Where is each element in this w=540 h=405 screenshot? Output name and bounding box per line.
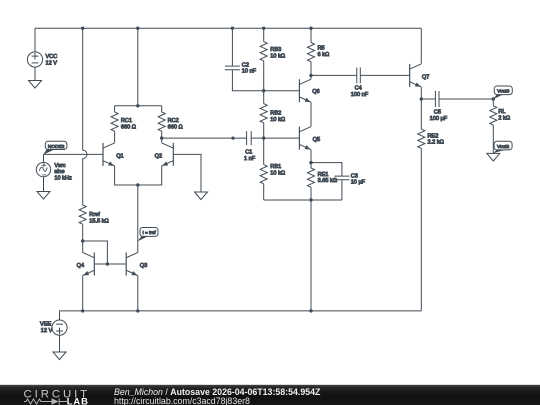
transistor Q7 [410,64,430,87]
capacitor C3 10uF [334,173,365,200]
svg-text:Rref: Rref [89,212,100,218]
wire node to Q6 base [264,90,300,92]
wire Q6 collector node to C4 [311,74,357,76]
resistor R5 6k [308,43,330,76]
resistor Rref [79,205,109,241]
wire Q4 collector to Rref node [82,241,84,253]
svg-text:Vout3: Vout3 [497,89,510,95]
transistor Q1 [103,143,124,166]
ground below Vsrc [37,192,50,200]
node flag Vout2 [493,141,512,153]
svg-text:10 µF: 10 µF [351,180,366,186]
svg-text:15.5 kΩ: 15.5 kΩ [89,219,108,225]
svg-text:RC2: RC2 [168,118,179,124]
wire RE1 node down to VEE rail [310,200,312,311]
wire Q6 collector up [310,75,312,79]
CircuitLab logo [0,385,95,405]
wire Q5 emitter down [310,150,312,163]
svg-text:10 kHz: 10 kHz [54,175,72,181]
wire C4 to Q7 base [398,74,410,76]
resistor RB1 10k [260,138,285,200]
transistor Q2 (mirrored) [155,143,174,166]
svg-text:C3: C3 [351,173,358,179]
svg-text:Q1: Q1 [116,153,123,159]
voltage source Vsrc sine [36,154,72,191]
svg-text:RE2: RE2 [428,133,439,139]
transistor Q6 [299,79,319,102]
junction rail @82.7 [81,27,84,30]
resistor RL 2k [490,99,510,153]
svg-text:sine: sine [54,169,64,175]
svg-text:RC1: RC1 [121,118,132,124]
svg-text:10 kΩ: 10 kΩ [270,53,285,59]
junction C5/RL node [492,97,495,100]
resistor RC2 660 [158,106,182,143]
resistor RB3 10k [260,42,285,91]
voltage source VEE [40,311,67,353]
svg-text:RB1: RB1 [270,164,281,170]
svg-text:C2: C2 [242,62,249,68]
svg-text:660 Ω: 660 Ω [121,124,136,130]
wire rail to RB3 [263,28,265,41]
junction wire node @233 [231,137,234,140]
svg-text:RL: RL [498,109,505,115]
wire Q2 base to ground [173,154,201,192]
ground below VCC [29,81,42,89]
svg-text:VCC: VCC [46,54,58,60]
svg-text:C4: C4 [355,86,362,92]
svg-text:100 nF: 100 nF [351,92,369,98]
svg-text:10 kΩ: 10 kΩ [270,171,285,177]
ground at Q2 base [195,192,208,200]
svg-text:10 kΩ: 10 kΩ [270,117,285,123]
svg-text:Q4: Q4 [77,263,84,269]
junction rail @137.8 [136,27,139,30]
resistor RE1 3.65k [308,163,338,200]
svg-text:RB3: RB3 [270,47,281,53]
svg-text:Q2: Q2 [155,153,162,159]
transistor Q5 [299,127,320,150]
junction tail [136,183,139,186]
svg-text:12 V: 12 V [46,61,58,67]
svg-text:RB2: RB2 [270,111,281,117]
junction Q5 emitter node [309,161,312,164]
wire node to Q5 base [264,137,300,139]
wire VEE bottom rail [60,310,422,312]
svg-text:Q7: Q7 [422,75,429,81]
svg-text:LAB: LAB [67,396,89,405]
svg-text:2.2 kΩ: 2.2 kΩ [428,140,444,146]
capacitor C1 1nF [244,131,264,162]
wire Q7 emitter down [420,87,422,99]
resistor RB2 10k [260,91,285,138]
junction Q7 emitter node [420,97,423,100]
wire rail to R5 [310,28,312,42]
wire node to C5 [421,98,435,100]
svg-text:1 nF: 1 nF [244,156,256,162]
svg-text:C1: C1 [245,150,252,156]
wire top VCC rail [35,27,421,29]
ground at RL bottom [487,153,500,161]
wire node to C3 top [311,163,342,177]
wire RB1 bottom to RE1 node [264,199,342,201]
transistor Q3 [126,253,147,276]
junction rail @232.4 [231,27,234,30]
svg-text:100 µF: 100 µF [430,116,448,122]
wire rail to RC bus [137,28,139,106]
svg-text:660 Ω: 660 Ω [168,124,183,130]
node NODE2 flag [43,141,67,154]
junction rail @263.7 [262,27,265,30]
svg-text:NODE2: NODE2 [48,144,65,150]
capacitor C4 100nF [351,68,398,99]
junction RC2 bottom node [160,136,163,139]
junction RC bus @137.8 [136,104,139,107]
svg-text:12 V: 12 V [41,328,53,334]
svg-text:C5: C5 [434,110,441,116]
junction R5/C4/Q6 collector [309,74,312,77]
svg-text:3.65 kΩ: 3.65 kΩ [318,178,337,184]
footer bar [0,384,540,405]
wire RC1/RC2 top bus [115,105,162,107]
svg-text:VEE: VEE [40,322,51,328]
capacitor C2 10nF [225,62,264,90]
wire mirror base bus [94,263,126,265]
junction VEE rail @137.8 [136,309,139,312]
svg-text:R5: R5 [318,46,325,52]
wire tail to Q3 collector [137,185,139,253]
svg-text:I = Iref: I = Iref [143,230,157,235]
node flag I = Iref [138,228,158,242]
ground below VEE [53,352,66,360]
svg-text:2 kΩ: 2 kΩ [498,116,510,122]
wire Vsrc to Q1 base (hop over ref column) [43,153,103,155]
voltage source VCC [27,28,57,80]
svg-text:RE1: RE1 [318,172,329,178]
wire rail to Rref column [83,28,87,205]
wire Q3 emitter to VEE rail [137,276,139,311]
wire Q4 emitter to VEE rail [82,276,84,311]
svg-text:Vout2: Vout2 [497,144,510,150]
wire rail to C2 [231,28,233,66]
svg-text:6 kΩ: 6 kΩ [318,52,330,58]
junction RB3/RB2/C2/Q6 base [262,89,265,92]
svg-text:Q5: Q5 [313,137,320,143]
junction VEE rail @82.7 [81,309,84,312]
svg-text:Vsrc: Vsrc [54,163,65,169]
junction Rref bottom @241 [81,239,84,242]
node flag Vout3 [493,86,512,99]
wire RC2 node to C1 [162,137,247,139]
svg-text:Q6: Q6 [312,89,319,95]
wire Rref node to mirror base link [83,241,108,264]
resistor RC1 660 [111,106,136,143]
wire Q6 emitter to Q5 collector [310,102,312,126]
junction mirror base link [106,262,109,265]
capacitor C5 100uF [430,91,494,122]
junction RB2/RB1/C1/Q5 base [262,136,265,139]
wire diff pair emitters to tail [115,166,162,185]
resistor RE2 2.2k [418,99,444,311]
junction rail @311 [309,27,312,30]
junction VEE rail @311 [309,309,312,312]
wire rail down to Q7 collector [420,28,422,64]
svg-text:Q3: Q3 [140,263,147,269]
transistor Q4 (mirrored) [77,253,95,276]
junction RE1 bottom [309,198,312,201]
svg-text:10 nF: 10 nF [242,69,257,75]
